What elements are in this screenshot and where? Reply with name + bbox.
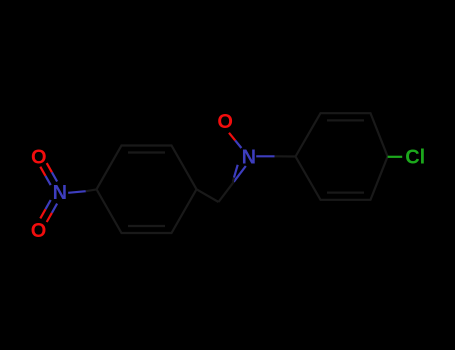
svg-text:Cl: Cl — [405, 147, 425, 169]
svg-text:O: O — [31, 147, 47, 169]
svg-text:O: O — [31, 220, 47, 242]
svg-text:O: O — [217, 111, 233, 133]
nitro group N-O bottom double bond — [40, 209, 45, 218]
O-N nitrone bond — [229, 133, 235, 141]
svg-text:N: N — [242, 147, 256, 169]
nitro group N=O top double bond — [40, 167, 45, 176]
bond N(nitrone)-right ring — [256, 155, 274, 157]
benzene ring left (4-nitrophenyl) — [97, 146, 197, 234]
C=N second line — [233, 178, 234, 182]
C=N main line — [219, 182, 234, 202]
svg-text:N: N — [53, 182, 67, 204]
benzene ring right (4-chlorophenyl) — [296, 113, 388, 200]
bond ring-CH — [197, 189, 219, 202]
bond C-Cl — [388, 156, 403, 158]
bond N(nitro)-ring — [68, 191, 86, 193]
